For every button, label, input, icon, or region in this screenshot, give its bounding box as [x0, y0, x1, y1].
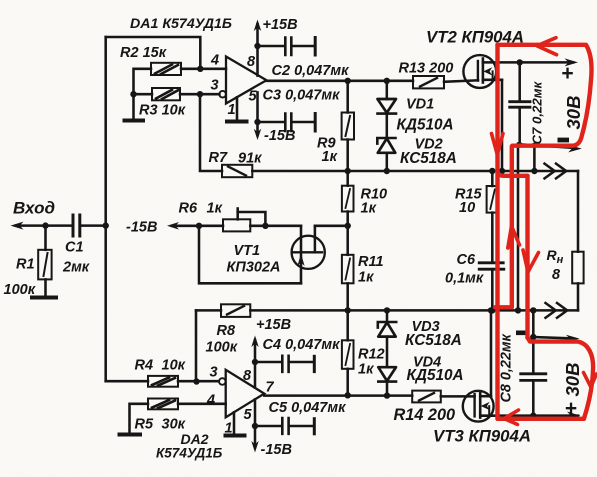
svg-text:1к: 1к: [358, 270, 374, 286]
resistor R5: [148, 399, 178, 410]
resistor R9: [342, 81, 354, 171]
resistor R8: [196, 304, 250, 317]
node mid bias: [345, 223, 351, 229]
svg-text:2мк: 2мк: [62, 260, 90, 276]
wire C5 to bar: [290, 425, 313, 428]
wire R3 left: [134, 93, 153, 96]
svg-text:1к: 1к: [358, 362, 374, 378]
node x518 bottom rail: [515, 307, 521, 313]
wire C2 to bar: [293, 45, 315, 48]
svg-text:R3 10к: R3 10к: [139, 103, 186, 119]
terminal bar C5: [313, 419, 316, 434]
svg-text:1: 1: [228, 102, 236, 118]
red down arrowhead on B: [523, 250, 539, 272]
wire R4 to pin3: [106, 380, 148, 383]
red arrowhead left on top stroke: [537, 38, 557, 55]
node VD3 rail: [384, 307, 390, 313]
svg-text:+: +: [565, 397, 577, 420]
svg-text:100к: 100к: [206, 340, 238, 356]
svg-text:R6: R6: [179, 201, 198, 217]
red bottom stroke: [498, 417, 584, 421]
node VD2 rail: [384, 168, 390, 174]
svg-text:1к: 1к: [322, 149, 338, 165]
svg-text:R13 200: R13 200: [399, 61, 454, 77]
node output R9: [345, 78, 351, 84]
svg-text:КД510А: КД510А: [407, 367, 464, 384]
wire to R6: [199, 225, 223, 228]
resistor R1: [38, 226, 51, 296]
diode VD1: [378, 81, 397, 138]
node C8 bottom: [530, 412, 536, 418]
svg-text:С6: С6: [457, 252, 476, 268]
svg-text:4: 4: [210, 53, 219, 69]
node VT2 drain C7: [517, 59, 523, 65]
svg-text:C4 0,047мк: C4 0,047мк: [263, 337, 341, 353]
node R15 rail: [489, 168, 495, 174]
wire to C2: [258, 45, 285, 48]
wire C4 to bar: [290, 361, 313, 364]
resistor R12: [342, 310, 354, 395]
svg-text:R4: R4: [135, 358, 154, 374]
wire R3 ground drop: [132, 94, 135, 119]
wire VT1 drain to node: [315, 225, 348, 228]
red up line: [510, 146, 514, 307]
svg-text:КС518А: КС518А: [400, 150, 457, 167]
resistor R11: [342, 226, 354, 311]
ground DA1 pin1: [227, 120, 247, 124]
resistor R13: [413, 76, 478, 88]
wire to C4: [255, 361, 281, 364]
power -15V arrow DA2: [251, 426, 258, 453]
wire rail bottom: [250, 309, 578, 312]
svg-text:Вход: Вход: [13, 199, 55, 218]
power -30V arrow top: [568, 145, 582, 153]
node VD4 bottom: [384, 392, 390, 398]
output chevrons top: [545, 164, 567, 179]
svg-text:8: 8: [243, 368, 252, 384]
RED ANNOTATION OVERLAY: [492, 38, 597, 425]
wire DA2 pin5: [254, 400, 257, 427]
svg-text:C3 0,047мк: C3 0,047мк: [263, 88, 341, 104]
node input junction: [42, 222, 48, 228]
svg-text:1к: 1к: [207, 201, 223, 217]
svg-text:R1: R1: [16, 257, 35, 273]
terminal bar C4: [313, 356, 316, 371]
svg-text:-15В: -15В: [126, 220, 157, 236]
node VT3 drain rail: [488, 307, 494, 313]
svg-text:1: 1: [225, 421, 233, 437]
node R2 right junction: [197, 66, 203, 72]
svg-text:100к: 100к: [4, 282, 36, 298]
resistor R6 with tap: [223, 209, 265, 232]
power +30V arrow bottom: [567, 412, 581, 420]
red loop around C7: [498, 45, 592, 146]
wire feedback vertical: [200, 94, 222, 171]
svg-text:С8 0,22мк: С8 0,22мк: [499, 333, 515, 402]
node R9 rail: [345, 168, 351, 174]
diode VD3 zener: [378, 310, 396, 367]
node R12 bottom: [345, 392, 351, 398]
wire -30V top line: [520, 144, 574, 148]
wire DA1 pin8: [256, 46, 259, 76]
wire R2 right to pin4: [181, 68, 226, 71]
ground below R3: [125, 119, 144, 123]
node minus tap top: [532, 143, 537, 148]
wire C3 to bar: [293, 121, 315, 124]
input terminal arrow: [11, 222, 24, 230]
wire to C5: [255, 425, 281, 428]
node R3 right junction: [197, 91, 203, 97]
wire DA1 pin1: [236, 97, 239, 120]
wire DA2 pin8: [254, 362, 257, 388]
node C8 top rail: [530, 307, 536, 313]
svg-text:КП302А: КП302А: [227, 260, 281, 276]
wire R8 left vertical: [195, 310, 198, 381]
svg-text:10к: 10к: [162, 358, 186, 374]
wire DA2 pin1: [233, 412, 236, 434]
op-amp DA1: [219, 57, 266, 104]
transistor VT2: [463, 55, 502, 88]
power +15V arrow DA2: [251, 336, 258, 363]
svg-text:-15В: -15В: [264, 128, 295, 144]
red vertical line A: [495, 45, 499, 419]
terminal bar C2: [314, 38, 317, 56]
wire VT3 drain up: [490, 310, 493, 396]
svg-text:30В: 30В: [562, 363, 583, 397]
capacitor C3: [285, 114, 291, 132]
svg-text:C1: C1: [65, 240, 84, 256]
svg-text:R11: R11: [358, 254, 384, 270]
wire input bus vertical: [104, 37, 107, 381]
svg-text:3: 3: [210, 365, 218, 381]
node R3 left junction: [130, 91, 136, 97]
svg-text:-15В: -15В: [261, 442, 292, 458]
svg-text:1к: 1к: [361, 201, 377, 217]
node VT2 source rail: [499, 168, 505, 174]
wire top frame to R2 node: [106, 37, 201, 69]
capacitor C4: [282, 356, 288, 372]
node rail x534: [531, 168, 537, 174]
svg-text:DA1 К574УД1Б: DA1 К574УД1Б: [130, 16, 232, 32]
wire rail top (output rail): [252, 170, 578, 173]
wire R4 right: [178, 380, 219, 383]
node C7 bottom junction: [516, 142, 522, 148]
capacitor C1: [73, 215, 80, 236]
svg-text:8: 8: [552, 267, 561, 283]
svg-text:C2 0,047мк: C2 0,047мк: [272, 63, 350, 79]
svg-text:30В: 30В: [563, 96, 584, 130]
red down arrowhead on A: [492, 134, 504, 155]
node C6 bottom rail: [489, 307, 495, 313]
wire -30V bottom line: [533, 337, 572, 338]
capacitor C7: [510, 62, 530, 144]
ground DA2 pin1: [226, 434, 245, 438]
red left arrowhead on bottom stroke: [504, 410, 519, 425]
resistor R14: [412, 391, 474, 403]
wire R5 right to pin4: [178, 403, 226, 406]
svg-text:+: +: [561, 62, 573, 85]
svg-text:3: 3: [211, 78, 219, 94]
svg-text:5: 5: [244, 407, 253, 423]
wire C1 to input bus: [82, 224, 106, 227]
transistor VT3: [463, 391, 497, 422]
resistor R3: [152, 88, 180, 100]
svg-text:R14 200: R14 200: [394, 406, 456, 424]
diode VD4: [378, 367, 396, 395]
power +30V arrow top: [565, 58, 579, 66]
svg-text:VT1: VT1: [234, 243, 261, 259]
node R4 right junction: [193, 378, 199, 384]
node -30V tap bottom: [530, 334, 536, 340]
wire DA1 pin5: [256, 92, 259, 122]
output chevrons bottom: [546, 303, 568, 318]
svg-text:КС518А: КС518А: [405, 332, 462, 349]
node C3 tap: [254, 119, 260, 125]
resistor R4: [148, 376, 178, 387]
node R11 bottom rail: [345, 307, 351, 313]
wire input line: [16, 224, 72, 227]
node R6 tap junction: [262, 223, 268, 229]
node C4 tap: [252, 359, 258, 365]
wire DA1 output: [267, 80, 414, 83]
capacitor C5: [282, 418, 288, 434]
red arrowhead bottom right: [584, 373, 597, 388]
ground below R1: [32, 296, 56, 300]
node C2 tap: [254, 43, 260, 49]
capacitor C2: [285, 38, 291, 56]
resistor R10: [342, 171, 354, 226]
svg-text:7: 7: [266, 380, 275, 396]
power +15V arrow DA1: [254, 20, 261, 47]
svg-text:С7 0,22мк: С7 0,22мк: [530, 81, 545, 145]
svg-text:4: 4: [206, 393, 215, 409]
svg-text:R12: R12: [358, 347, 385, 363]
svg-text:R5: R5: [135, 417, 154, 433]
svg-text:R8: R8: [217, 323, 236, 339]
diode VD2 zener: [377, 138, 395, 171]
resistor R7: [222, 165, 252, 177]
svg-text:+15В: +15В: [256, 317, 291, 333]
red up arrowhead: [508, 226, 520, 248]
svg-text:10: 10: [459, 200, 475, 216]
svg-text:8: 8: [247, 54, 256, 70]
op-amp DA2: [219, 370, 264, 418]
terminal bar C3: [314, 114, 317, 132]
node C1 right junction: [103, 222, 109, 228]
svg-text:R2 15к: R2 15к: [120, 45, 167, 61]
wire DA2 output: [264, 394, 412, 397]
wire to C3: [258, 121, 285, 124]
red step at top rail: [498, 172, 528, 176]
power -30V arrow bottom: [566, 335, 580, 343]
minus mark bottom supply: [516, 331, 526, 336]
svg-text:VD1: VD1: [406, 97, 434, 113]
wire R6 right: [250, 225, 301, 228]
node output VD1: [384, 78, 390, 84]
red vertical line B: [525, 176, 529, 338]
svg-text:0,1мк: 0,1мк: [445, 271, 484, 287]
wire VT2 source down: [501, 80, 504, 171]
svg-text:91к: 91к: [238, 151, 262, 167]
capacitor C8: [521, 310, 546, 415]
svg-text:R7: R7: [209, 150, 228, 166]
svg-text:VT3 КП904А: VT3 КП904А: [433, 427, 531, 446]
wire minus tap to rail: [533, 145, 536, 171]
svg-text:КД510А: КД510А: [397, 117, 454, 134]
wire VT1 source frame: [199, 226, 301, 283]
ground below R5: [120, 433, 141, 437]
wire VT3 source to +30V: [497, 414, 578, 417]
load resistor Rn: [572, 171, 583, 310]
wire R5 left ground: [130, 404, 149, 433]
node R6 left: [196, 223, 202, 229]
power -15V arrow mid: [167, 222, 199, 230]
power -15V arrow DA1: [254, 122, 261, 140]
svg-text:+15В: +15В: [263, 17, 298, 33]
resistor R2: [151, 63, 181, 75]
minus mark top supply: [558, 138, 570, 143]
svg-text:5: 5: [249, 89, 258, 105]
capacitor C6: [479, 263, 504, 311]
node C5 tap: [252, 423, 258, 429]
svg-text:C5 0,047мк: C5 0,047мк: [269, 400, 347, 416]
svg-text:К574УД1Б: К574УД1Б: [156, 446, 223, 461]
wire R2 left: [134, 69, 152, 94]
wire R3 right to pin3: [180, 93, 219, 96]
wire C7 minus to bottom rail (crosses rail): [517, 148, 520, 310]
resistor R15: [487, 171, 499, 262]
red bottom step: [495, 305, 512, 309]
wire VT2 drain to +30V: [498, 61, 573, 64]
red B to bottom supply curve: [528, 338, 594, 419]
transistor VT1: [292, 226, 325, 283]
